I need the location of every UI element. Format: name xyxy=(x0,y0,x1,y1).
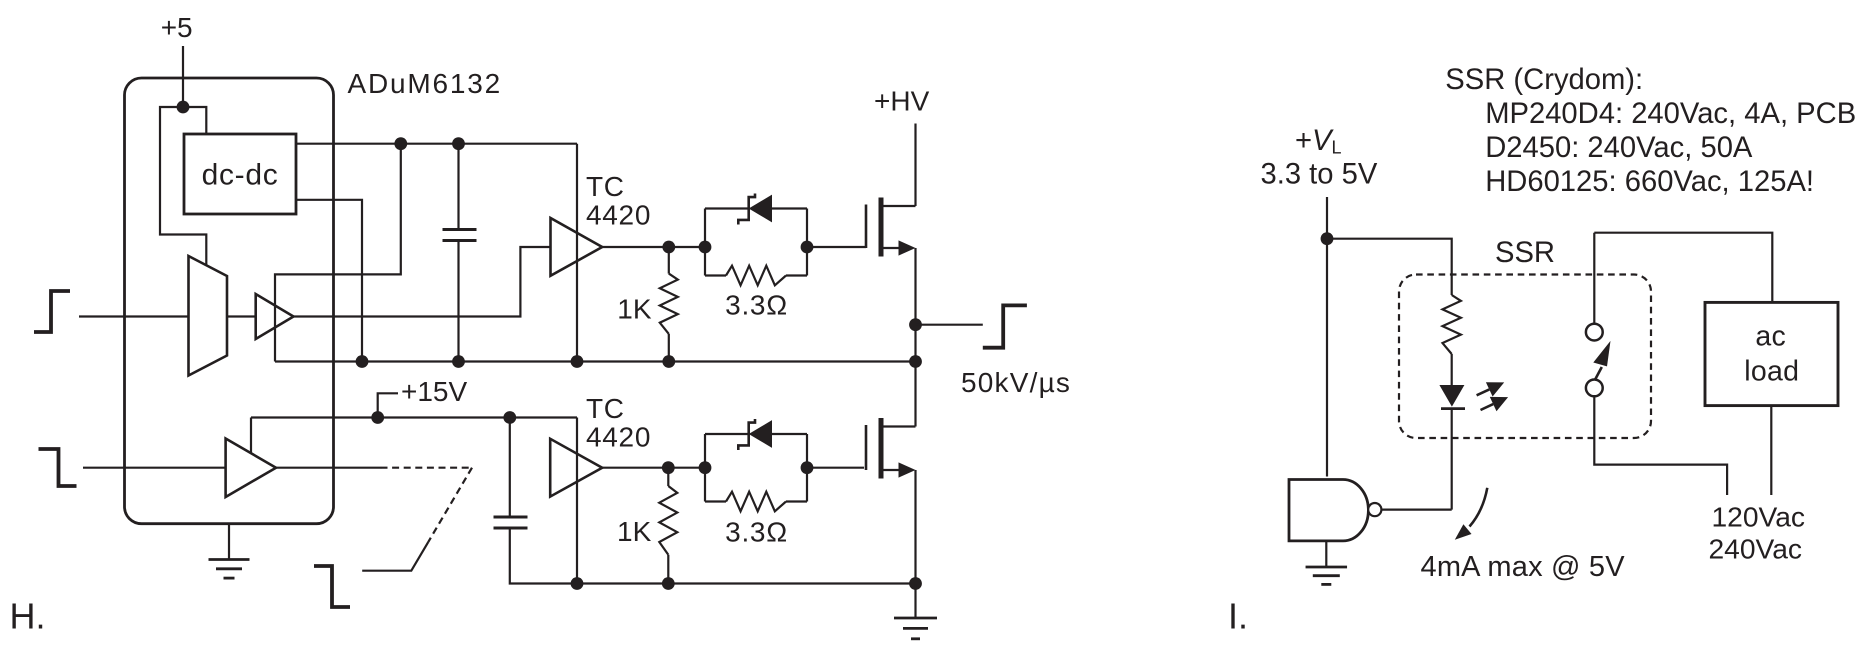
svg-text:ADuM6132: ADuM6132 xyxy=(348,68,502,99)
svg-text:4420: 4420 xyxy=(586,199,651,230)
svg-text:TC: TC xyxy=(586,393,625,424)
svg-text:TC: TC xyxy=(586,171,625,202)
svg-text:3.3Ω: 3.3Ω xyxy=(725,517,788,548)
svg-text:4420: 4420 xyxy=(586,421,651,452)
svg-text:ac: ac xyxy=(1755,321,1786,353)
svg-text:D2450: 240Vac, 50A: D2450: 240Vac, 50A xyxy=(1485,132,1753,164)
svg-text:120Vac: 120Vac xyxy=(1712,500,1806,532)
svg-text:load: load xyxy=(1744,356,1799,388)
svg-text:HD60125: 660Vac, 125A!: HD60125: 660Vac, 125A! xyxy=(1485,166,1814,198)
svg-text:dc-dc: dc-dc xyxy=(202,159,279,192)
svg-text:+HV: +HV xyxy=(874,86,930,117)
svg-text:50kV/µs: 50kV/µs xyxy=(961,367,1071,398)
svg-text:3.3Ω: 3.3Ω xyxy=(725,290,788,321)
svg-text:H.: H. xyxy=(10,596,46,637)
svg-text:SSR: SSR xyxy=(1495,237,1555,269)
svg-text:+15V: +15V xyxy=(401,376,467,407)
svg-text:4mA max @ 5V: 4mA max @ 5V xyxy=(1421,551,1626,583)
svg-text:SSR (Crydom):: SSR (Crydom): xyxy=(1445,64,1643,96)
svg-text:MP240D4: 240Vac, 4A, PCB: MP240D4: 240Vac, 4A, PCB xyxy=(1485,98,1856,130)
svg-text:3.3 to 5V: 3.3 to 5V xyxy=(1261,159,1378,191)
svg-text:+5: +5 xyxy=(161,12,193,43)
svg-text:240Vac: 240Vac xyxy=(1709,532,1803,564)
svg-text:I.: I. xyxy=(1228,596,1248,637)
svg-text:1K: 1K xyxy=(617,516,652,547)
svg-text:1K: 1K xyxy=(617,294,652,325)
